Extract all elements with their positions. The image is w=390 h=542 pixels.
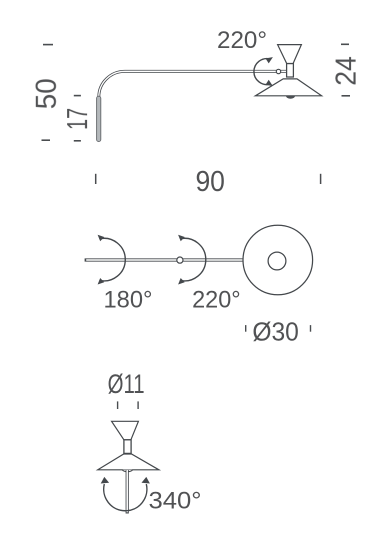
upper cone (funnel) [278,45,302,64]
dimension 17 bottom tick [74,140,81,142]
rotation arc 340 deg left arrowhead [101,477,109,484]
rotation arc 220 deg top arrowhead [266,57,273,63]
svg-text:50: 50 [31,78,63,109]
rotation arc 180 deg top arrowhead [98,235,105,242]
dimension 90 right tick [320,174,322,184]
dimension 90 left tick [95,174,97,184]
rotation arc 180 deg bottom arrowhead [98,278,105,285]
shade bottom knob [286,96,295,99]
dimension 50 top tick [43,44,53,46]
arm joint circle [276,69,280,73]
svg-text:90: 90 [195,166,225,198]
diameter 11 left tick [117,401,119,409]
svg-text:220°: 220° [192,287,241,314]
shade outer circle (top view) [243,225,313,295]
lamp shade (side view) [255,79,321,96]
neck rectangle (front view) [124,440,131,454]
rotation arc 220 deg (top) [254,59,270,85]
lamp arm with elbow (double line) [99,71,287,97]
rotation arc 340 deg right arrowhead [142,477,150,484]
svg-text:220°: 220° [217,27,267,54]
rotation arc 220 deg (middle) bottom arrowhead [178,278,185,285]
lamp hub rectangle [287,64,294,78]
diameter 11 right tick [137,401,139,409]
dimension 17 top tick [74,95,81,97]
wall mount bar [97,96,101,141]
shade inner circle [268,252,286,270]
arm joint circle (top view) [177,257,183,263]
rotation arc 220 deg (middle) [180,238,206,281]
rotation arc 180 deg [99,238,125,281]
arm (top view, double line) [85,258,244,261]
svg-text:17: 17 [62,108,94,130]
svg-text:Ø30: Ø30 [252,318,299,346]
stem (double line) [126,470,129,514]
svg-text:340°: 340° [149,487,202,514]
svg-text:180°: 180° [104,287,153,314]
rotation arc 340 deg [104,484,147,511]
upper cone (front view) [112,421,139,440]
dimension 24 top tick [341,43,349,45]
dimension 50 bottom tick [42,139,51,141]
diameter 30 right tick [310,325,312,332]
svg-text:Ø11: Ø11 [108,369,145,399]
dimension 24 bottom tick [342,95,351,97]
shade bottom socket arc [122,470,132,472]
rotation arc 220 deg bottom arrowhead [266,80,273,86]
svg-text:24: 24 [331,56,363,86]
lamp shade (front view) [98,454,159,470]
diameter 30 left tick [245,325,247,332]
rotation arc 220 deg (middle) top arrowhead [178,235,185,242]
